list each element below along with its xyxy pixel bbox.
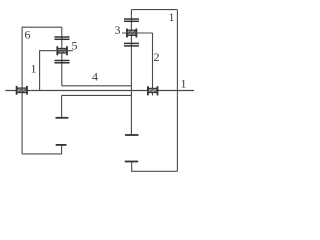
main shaft axis line <box>5 90 194 92</box>
carrier left leg <box>61 95 63 117</box>
gear rim pair D (lower, gear 2 mesh) <box>124 43 139 46</box>
svg-text:3: 3 <box>115 23 121 37</box>
gear 3 hub block inner lines <box>127 30 136 35</box>
gear 3 hub block side ticks <box>127 29 136 38</box>
carrier pin arm of link 1 (through gear 5 hub) <box>40 50 73 52</box>
carrier right bearing crossbar <box>125 134 139 136</box>
gear 2 block on axis hatched body <box>148 88 158 92</box>
bearing block B1 side ticks <box>17 86 27 95</box>
link 1 top bar <box>131 9 177 11</box>
link 1 right vertical <box>176 10 178 172</box>
carrier lower bar <box>62 94 132 96</box>
gear 5 hub block side ticks <box>57 46 67 55</box>
svg-text:1: 1 <box>169 10 175 24</box>
shaft 2 vertical <box>152 33 154 95</box>
frame link 6 bottom bar <box>22 153 62 155</box>
frame link 6 bottom riser <box>61 145 63 155</box>
frame link 6 top bar <box>22 26 62 28</box>
link 1 bottom riser <box>131 162 133 172</box>
gear 5 shaft vertical <box>61 27 63 86</box>
gear 2 block inner lines <box>148 88 158 92</box>
link 1 bottom bar <box>132 170 178 172</box>
svg-text:6: 6 <box>25 28 31 42</box>
svg-text:1: 1 <box>181 77 187 91</box>
shaft 2 arm (through gear 3 hub) <box>122 32 153 34</box>
gear 2 block side ticks <box>148 86 158 95</box>
bearing block B1 inner lines <box>17 88 27 93</box>
link 1 left riser <box>39 50 41 90</box>
gear 3 hub block hatched body <box>127 30 136 35</box>
svg-text:4: 4 <box>92 70 98 84</box>
gear 5 hub block hatched body <box>57 48 67 53</box>
svg-text:2: 2 <box>154 50 160 64</box>
bearing block B1 on axis (link 6 hub) hatched body <box>17 88 27 93</box>
gear 5 hub block inner lines <box>57 48 67 53</box>
frame link 6 bearing crossbar <box>56 144 67 146</box>
gear rim pair B (lower, gear 4 mesh) <box>54 61 69 63</box>
carrier left bearing crossbar <box>56 117 69 119</box>
gear rim pair A (upper, gear 5) <box>54 37 69 39</box>
svg-text:1: 1 <box>31 62 37 76</box>
gear 3 shaft vertical <box>130 10 132 135</box>
carrier bar link 4 <box>62 85 132 87</box>
frame link 6 left vertical <box>21 27 23 154</box>
gear rim pair C (upper, gear 3) <box>124 19 139 21</box>
svg-text:5: 5 <box>72 39 78 53</box>
link 1 bearing crossbar <box>125 161 138 163</box>
